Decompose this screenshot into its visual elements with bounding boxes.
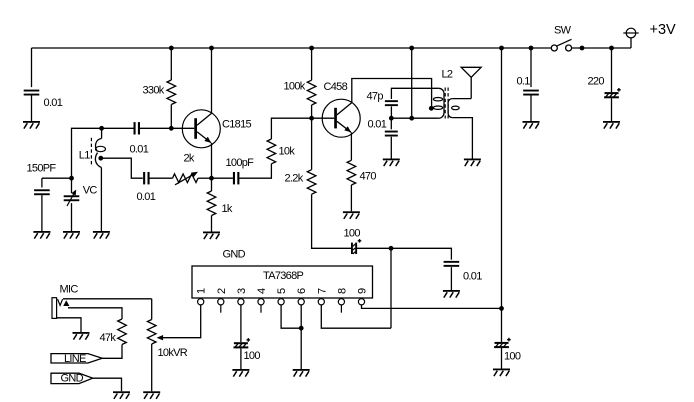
ground GND tag	[113, 391, 130, 393]
node base C1815	[169, 126, 174, 131]
svg-text:LINE: LINE	[64, 353, 86, 365]
svg-text:100k: 100k	[284, 81, 306, 93]
wire 100k to base node	[311, 105, 313, 118]
capacitor 100uF supply	[495, 342, 509, 344]
capacitor 0.01 series base	[134, 122, 136, 134]
wire 2.2k down to 100uF	[312, 194, 352, 248]
node pin5 pin6	[299, 326, 304, 331]
wire pin2 stub	[220, 305, 222, 313]
node rail 100k	[309, 46, 314, 51]
wire 2.2k from base node	[311, 118, 313, 170]
wire 330k to base node	[170, 105, 172, 129]
wire cap to base node	[140, 127, 171, 129]
wire L2 secondary bottom to ground	[452, 118, 472, 159]
svg-text:0.01: 0.01	[130, 143, 149, 155]
wire L1 top node to cap	[102, 127, 134, 129]
resistor 10k	[267, 139, 276, 164]
ground L1	[93, 231, 110, 233]
svg-text:7: 7	[316, 288, 328, 294]
transistor C1815	[182, 110, 251, 148]
wire emitter C458 down	[350, 132, 352, 160]
wire GND tag to ground	[93, 378, 122, 391]
svg-text:L1: L1	[79, 150, 90, 162]
capacitor 0.01 out	[444, 261, 460, 263]
svg-text:8: 8	[336, 288, 348, 294]
capacitor 0.01 series 2k	[143, 172, 145, 184]
svg-text:150PF: 150PF	[27, 163, 57, 175]
wire emitter C1815 down	[211, 143, 213, 178]
terminal +3V	[623, 22, 676, 48]
svg-text:100: 100	[344, 228, 361, 240]
resistor 470	[347, 160, 356, 185]
svg-text:L2: L2	[442, 69, 453, 81]
wire node to 0.01 out	[391, 248, 451, 259]
svg-text:0.1: 0.1	[517, 76, 531, 88]
wire pin5 to pin6	[281, 305, 301, 328]
wire 47p top	[391, 88, 438, 99]
svg-text:100: 100	[244, 350, 261, 362]
wire 100uF to ground	[501, 348, 503, 368]
wire pin1 to volume	[162, 305, 201, 338]
wire node to 0.01	[390, 118, 392, 129]
inductor L2 primary	[433, 69, 453, 119]
wire node down to pin7 line	[390, 248, 392, 328]
wire 100uF to node	[357, 247, 391, 249]
node L1 top	[99, 126, 104, 131]
wire left rail corner down	[31, 48, 33, 87]
capacitor 100pF	[233, 172, 235, 184]
svg-text:470: 470	[360, 171, 377, 183]
ground 100uF supply	[493, 369, 510, 371]
wire mic tip to volume	[63, 298, 152, 300]
svg-text:100pF: 100pF	[226, 157, 255, 169]
node L1 tap	[98, 156, 103, 161]
wire rail to 330k	[170, 48, 172, 80]
capacitor 0.01 osc	[385, 131, 398, 133]
transistor C458	[322, 81, 360, 137]
wire collector C1815 to rail	[211, 48, 213, 113]
svg-text:100: 100	[504, 351, 521, 363]
wire rail to 100k	[311, 48, 313, 80]
capacitor 0.01 left bypass	[24, 90, 40, 92]
capacitor 100uF coupling	[351, 243, 353, 254]
wire 220 down	[611, 48, 613, 92]
ground VC	[63, 231, 80, 233]
svg-text:10k: 10k	[279, 146, 296, 158]
wire L1 bottom to ground	[100, 168, 102, 232]
node rail collector C1815	[209, 46, 214, 51]
wire L2 bottom feed	[391, 117, 438, 119]
svg-text:2.2k: 2.2k	[285, 173, 304, 185]
ground 470	[343, 211, 360, 213]
node rail 0.1	[529, 46, 534, 51]
node power L2	[409, 116, 414, 121]
ground mic	[73, 332, 90, 334]
node after switch	[580, 46, 585, 51]
wire 47p bottom to node	[390, 106, 392, 118]
wire pin4 stub	[260, 305, 262, 313]
antenna	[461, 67, 481, 98]
resistor 100k	[307, 80, 316, 105]
IC TA7368P box	[192, 266, 373, 298]
wire mic ring to 47k	[68, 308, 122, 319]
inductor L1	[79, 128, 106, 167]
wire power vertical	[501, 48, 503, 308]
node L2 tap collector	[429, 106, 434, 111]
wire base node to transistor	[312, 117, 335, 119]
wire cap to 2k	[150, 177, 173, 179]
resistor 1k	[207, 191, 216, 216]
wire 47k to line	[102, 345, 122, 359]
wire L2 secondary top to antenna	[452, 98, 471, 100]
ground 0.01 out	[443, 290, 460, 292]
node rail power main	[499, 46, 504, 51]
resistor 330k	[167, 80, 176, 105]
wire pin3 cap to ground	[240, 348, 242, 369]
wire junction to 150PF	[42, 177, 72, 179]
trimmer resistor 2k	[173, 174, 199, 183]
wire cap to ground	[31, 95, 33, 121]
wire emitter node to 100pF	[212, 177, 233, 179]
svg-text:4: 4	[256, 288, 268, 294]
wire power to 100uF	[501, 308, 503, 342]
ground 150PF	[33, 231, 50, 233]
svg-text:10kVR: 10kVR	[158, 347, 188, 359]
microphone jack	[52, 298, 69, 319]
wire 0.1 down	[530, 48, 532, 87]
svg-text:0.01: 0.01	[44, 97, 63, 109]
ground 220	[603, 121, 620, 123]
ground 1k	[203, 232, 220, 234]
node rail power drop	[409, 46, 414, 51]
wire VC corner	[72, 128, 102, 178]
capacitor 0.1	[523, 90, 539, 92]
wire 0.1 to ground	[530, 95, 532, 121]
wire top +3V rail left of switch	[32, 47, 552, 49]
node rail 330k	[169, 46, 174, 51]
capacitor 150PF	[34, 189, 50, 191]
node emitter C1815	[209, 176, 214, 181]
wire pin9 to power	[362, 305, 502, 309]
wire collector C458 up	[352, 79, 432, 109]
core L2 dashed	[444, 88, 446, 119]
resistor 47k	[118, 319, 127, 345]
svg-text:TA7368P: TA7368P	[263, 270, 304, 282]
wire 2k to emitter node	[198, 177, 212, 179]
node 47p 0.01	[389, 116, 394, 121]
svg-text:2: 2	[216, 288, 228, 294]
wire base node left to 10k	[271, 118, 311, 139]
IC pins and numbers	[198, 299, 204, 305]
svg-text:GND: GND	[61, 373, 84, 385]
svg-text:6: 6	[296, 288, 308, 294]
wire base node to transistor	[171, 127, 194, 129]
wire 150PF down	[41, 178, 43, 187]
capacitor 47p	[385, 100, 398, 102]
node power pin9	[499, 306, 504, 311]
svg-text:330k: 330k	[143, 85, 165, 97]
wire emitter node to 1k	[211, 178, 213, 191]
connector LINE	[51, 354, 102, 363]
wire pin6 to ground	[300, 305, 302, 369]
svg-text:5: 5	[276, 288, 288, 294]
wire rail power drop	[411, 48, 413, 118]
wire 150PF to ground	[41, 195, 43, 231]
wire 10kVR to ground	[151, 344, 153, 391]
svg-text:1k: 1k	[222, 203, 233, 215]
svg-text:GND: GND	[223, 249, 246, 261]
capacitor 220 electrolytic	[605, 92, 619, 94]
svg-text:9: 9	[357, 288, 369, 294]
ground 0.1	[523, 121, 540, 123]
wire 220 to ground	[611, 98, 613, 121]
ground pin6	[293, 369, 310, 371]
wire VC to ground	[71, 203, 73, 231]
resistor 2.2k	[307, 170, 316, 195]
wire pin7 to audio node	[321, 305, 391, 328]
svg-text:1: 1	[196, 288, 208, 294]
wire 470 to ground	[350, 185, 352, 211]
wire pin8 stub	[340, 305, 342, 313]
svg-text:SW: SW	[554, 25, 572, 37]
wire pin3 down	[240, 305, 242, 342]
wire top +3V rail right of switch	[572, 47, 631, 49]
svg-text:0.01: 0.01	[463, 271, 482, 283]
wire 0.01 out to ground	[450, 267, 452, 290]
inductor L2 secondary	[448, 99, 459, 118]
volume 10kVR	[151, 299, 153, 320]
wire L1 tap to 0.01	[101, 158, 143, 178]
svg-text:220: 220	[588, 76, 605, 88]
connector GND	[51, 373, 93, 383]
node audio junction	[389, 246, 394, 251]
wire 1k to ground	[211, 216, 213, 232]
wire 0.01 to ground	[390, 137, 392, 159]
capacitor 100uF pin3	[234, 342, 248, 344]
svg-text:2k: 2k	[184, 153, 195, 165]
ground left bypass	[23, 121, 40, 123]
ground antenna	[464, 159, 481, 161]
wire mic sleeve to ground	[57, 318, 81, 332]
node base C458	[309, 116, 314, 121]
wire 100pF to 10k	[239, 164, 271, 178]
svg-text:MIC: MIC	[60, 284, 79, 296]
svg-text:+3V: +3V	[650, 22, 677, 38]
node rail 220	[609, 46, 614, 51]
ground 0.01 osc	[383, 159, 400, 161]
svg-text:47p: 47p	[367, 91, 384, 103]
node VC 150PF junction	[69, 176, 74, 181]
variable capacitor VC	[64, 195, 80, 197]
switch SW	[551, 25, 571, 52]
svg-text:VC: VC	[83, 185, 98, 197]
svg-text:0.01: 0.01	[368, 119, 387, 131]
ground 10kVR	[143, 391, 160, 393]
svg-text:3: 3	[236, 288, 248, 294]
svg-text:C458: C458	[324, 81, 348, 93]
wire VC node down	[71, 178, 73, 193]
svg-text:0.01: 0.01	[137, 191, 156, 203]
svg-text:47k: 47k	[100, 332, 117, 344]
svg-text:C1815: C1815	[222, 119, 251, 131]
ground pin3	[232, 369, 249, 371]
